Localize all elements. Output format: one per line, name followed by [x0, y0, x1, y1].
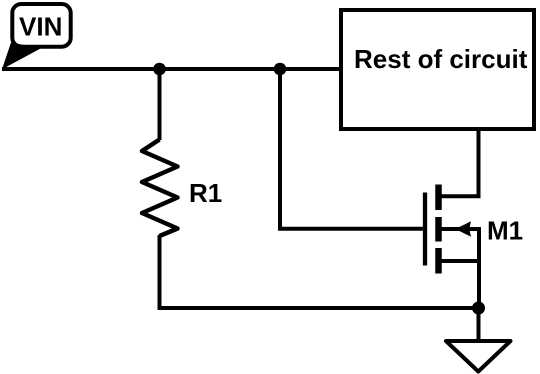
wire VIN rail (top horizontal) — [2, 67, 339, 71]
node VIN callout box — [12, 4, 70, 47]
wire gate feed (vertical + horizontal to gate) — [280, 69, 423, 229]
wire drain lead to box — [440, 129, 479, 196]
wire bottom rail — [158, 306, 479, 310]
node VIN callout tail — [2, 43, 41, 70]
block U1 rest-of-circuit box — [341, 10, 534, 129]
ground symbol — [446, 341, 511, 372]
transistor M1 body arrow — [455, 221, 471, 236]
node A junction dot (R1 tap) — [153, 63, 166, 76]
wire ground lead — [477, 308, 481, 340]
wire source lead — [440, 259, 479, 263]
wire body tie + source drop — [440, 229, 479, 308]
node B junction dot (gate tap) — [274, 63, 287, 76]
transistor M1 channel bar (drain segment) — [435, 185, 442, 211]
transistor M1 channel bar (source segment) — [435, 248, 442, 274]
node C junction dot (source/ground) — [472, 302, 485, 315]
wire R1 top lead — [158, 69, 162, 140]
resistor R1 zigzag body — [142, 140, 178, 237]
svg-text:VIN: VIN — [19, 11, 62, 41]
transistor M1 channel bar (body segment) — [435, 217, 442, 242]
wire R1 bottom lead — [158, 235, 162, 308]
svg-text:Rest of circuit: Rest of circuit — [354, 44, 528, 74]
transistor M1 gate bar — [423, 193, 427, 266]
svg-text:R1: R1 — [189, 178, 222, 208]
svg-text:M1: M1 — [487, 216, 523, 246]
